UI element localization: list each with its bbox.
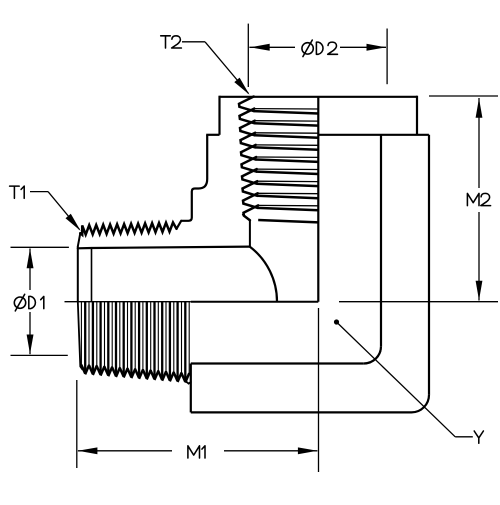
right shoulder line	[318, 134, 429, 136]
thread chamfer boundary	[91, 248, 93, 302]
dim OD1 dimension line	[29, 249, 31, 291]
inner bore right edge	[380, 135, 382, 346]
thread T1 top zigzag silhouette	[80, 223, 176, 235]
label T2 text	[161, 36, 171, 48]
thread T1 end boundary	[185, 381, 191, 384]
top thread right wall	[317, 97, 319, 302]
left shoulder step	[206, 134, 219, 136]
top boss right edge	[416, 96, 418, 135]
dim M1 dimension line	[78, 450, 172, 452]
label Y text	[474, 431, 483, 443]
left leg top edge	[78, 247, 250, 249]
label T2 leader	[182, 41, 205, 43]
body top face	[220, 96, 418, 98]
thread T1 crest lines and bottom zigzag	[82, 365, 89, 373]
body bottom edge	[191, 411, 412, 413]
port centerline / edge y=301.7	[65, 301, 191, 303]
left body edge	[206, 135, 208, 179]
inner corner radius	[364, 346, 381, 363]
inner fillet arc	[250, 247, 277, 302]
left end face	[77, 247, 79, 302]
dim OD1 extension lines	[11, 246, 69, 248]
thread T2 relief edge	[243, 215, 250, 247]
dim M2 extension lines	[429, 95, 498, 97]
left end face lower taper	[78, 301, 83, 369]
left moulding ogee	[181, 179, 207, 221]
dim OD2 text	[302, 43, 313, 54]
top boss left edge	[218, 96, 220, 135]
dim OD2 dimension line	[249, 46, 295, 48]
left end face chamfer	[78, 233, 81, 246]
label T1 text	[10, 186, 20, 198]
dim M2 text	[467, 193, 479, 205]
outer corner radius	[412, 395, 430, 413]
dim OD1 text	[14, 297, 25, 308]
label Y leader	[334, 319, 339, 324]
dim M1 text	[188, 446, 200, 458]
label T1 leader	[30, 191, 48, 193]
dim OD2 extension lines	[247, 24, 249, 87]
body outer right edge	[428, 135, 430, 395]
inner bore bottom edge	[191, 362, 364, 364]
step down to T1 thread	[177, 221, 182, 229]
dim M1 extension lines	[76, 380, 78, 468]
thread T2 zigzag and crest lines	[239, 97, 254, 112]
dim M2 dimension line	[478, 98, 480, 188]
